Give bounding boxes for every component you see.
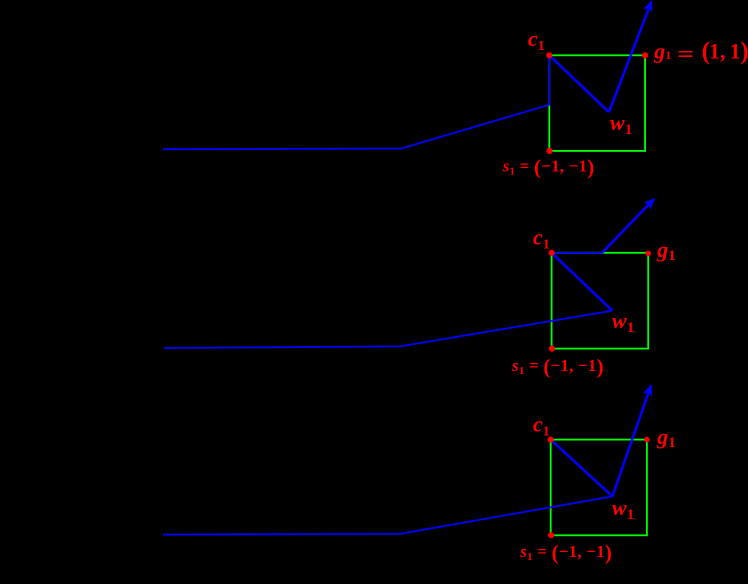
svg-text:s1 = (−1, −1): s1 = (−1, −1): [519, 541, 612, 565]
feasible box (green square) panel 3: [551, 440, 647, 536]
node g1 panel 3: [644, 437, 650, 443]
node c1 panel 1: [546, 52, 552, 58]
arrow outward panel 2: [602, 199, 654, 253]
feasible box (green square) panel 2: [552, 253, 649, 349]
feasible box (green square) panel 1: [549, 55, 645, 151]
node s1 panel 1: [547, 148, 553, 154]
arrow w1 outward panel 3: [612, 385, 651, 496]
svg-text:1: 1: [665, 48, 671, 62]
node g1 panel 2: [645, 251, 651, 257]
svg-text:1: 1: [730, 38, 741, 63]
arrow w1 outward panel 1: [609, 1, 652, 112]
segment c1 to w1 panel 3: [551, 440, 613, 497]
node c1 panel 2: [549, 250, 555, 256]
node g1 panel 1: [642, 52, 648, 58]
incoming trajectory wire panel 3: [163, 496, 612, 534]
svg-text:=: =: [677, 41, 694, 66]
segment c1 along top edge panel 2: [552, 252, 602, 254]
svg-text:g: g: [653, 39, 665, 64]
incoming trajectory wire panel 1: [163, 55, 549, 149]
svg-text:s1 = (−1, −1): s1 = (−1, −1): [502, 155, 595, 179]
node s1 panel 2: [549, 346, 555, 352]
svg-text:): ): [740, 38, 748, 65]
incoming trajectory wire panel 2: [164, 311, 612, 348]
svg-text:s1 = (−1, −1): s1 = (−1, −1): [511, 355, 604, 379]
svg-text:1,: 1,: [709, 38, 726, 63]
node s1 panel 3: [548, 532, 554, 538]
segment w1 to c1 panel 2: [552, 253, 613, 311]
label g1 = (1,1) panel 1: [653, 38, 748, 66]
node c1 panel 3: [548, 437, 554, 443]
segment c1 to w1 panel 1: [549, 55, 609, 112]
